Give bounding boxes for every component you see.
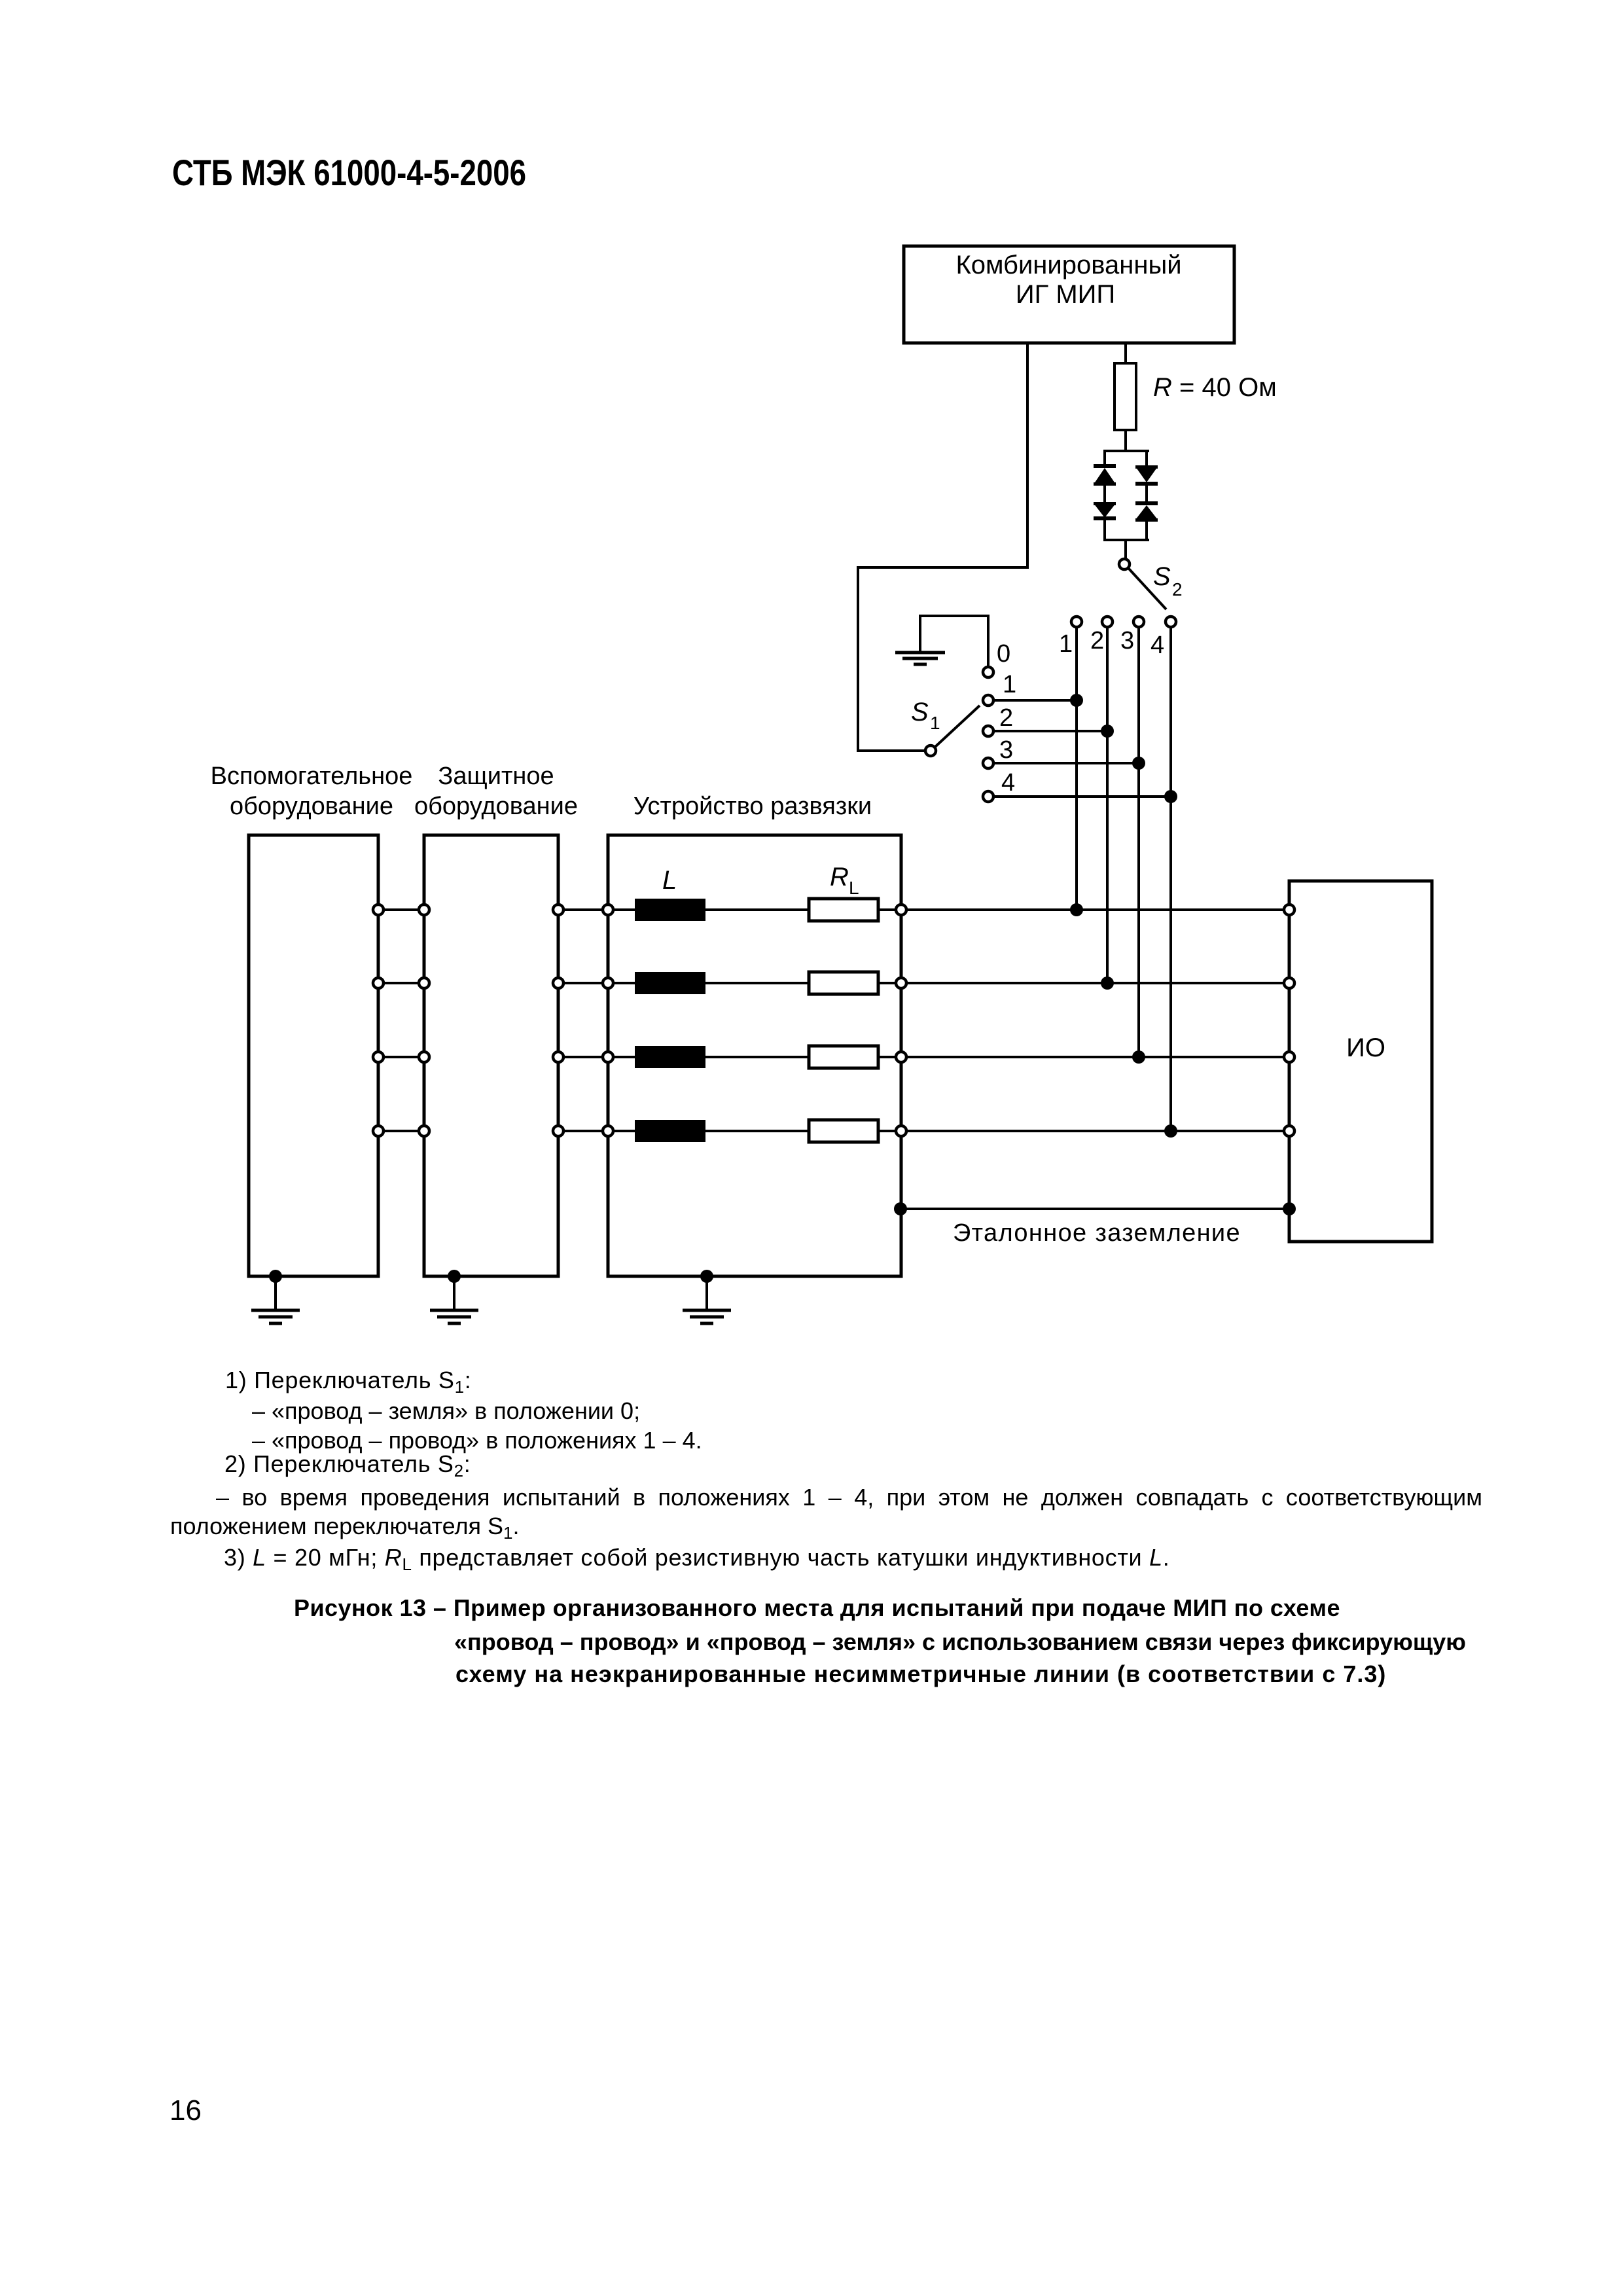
line 2: junction dot with vertical line 2 xyxy=(1101,977,1114,990)
line 2: wire to inductor xyxy=(613,982,635,984)
line 1: terminal circle on box3 left edge xyxy=(603,905,613,915)
line 4: terminal circle on box2 left edge xyxy=(419,1126,429,1136)
junction dot ground of box at x=694 xyxy=(448,1270,461,1283)
diode D1 (left top, cathode up) xyxy=(1094,464,1116,486)
line 3: terminal circle on EUT left edge xyxy=(1284,1052,1294,1062)
ground stem below box at x=694 xyxy=(453,1276,455,1309)
diode D2 (left bottom, cathode down) xyxy=(1094,502,1116,520)
line 3: wire box1-box2 xyxy=(383,1056,419,1058)
line 2: wire box1-box2 xyxy=(383,982,419,984)
line 2: wire box3 to EUT xyxy=(906,982,1284,984)
terminal circle line 1 top xyxy=(1071,617,1082,627)
line 2: terminal circle on box2 left edge xyxy=(419,978,429,988)
line 3: junction dot with vertical line 3 xyxy=(1132,1050,1145,1064)
resistor RL line 2 xyxy=(809,972,878,994)
line 3: terminal circle on box3 left edge xyxy=(603,1052,613,1062)
ground symbol below box at x=1080 xyxy=(683,1310,731,1323)
line 3: terminal circle on box2 right edge xyxy=(553,1052,563,1062)
terminal 4 of S1 xyxy=(983,791,993,802)
line 2: terminal circle on box3 left edge xyxy=(603,978,613,988)
note 1: switch S1 xyxy=(225,1369,471,1395)
ground stem below box at x=1080 xyxy=(705,1276,708,1309)
terminal 0 of S1 xyxy=(983,667,993,677)
vertical line from terminal 3 to line 3 xyxy=(1137,627,1140,1057)
figure caption line 1 xyxy=(294,1596,1340,1620)
line 3: terminal circle on box1 right edge xyxy=(373,1052,383,1062)
note 1a xyxy=(252,1399,640,1423)
inductor L line 3 xyxy=(635,1046,705,1068)
line 1: wire inductor to resistor RL xyxy=(705,908,808,911)
line 3: wire inductor to resistor RL xyxy=(705,1056,808,1058)
line 4: terminal circle on EUT left edge xyxy=(1284,1126,1294,1136)
terminal 3 of S1 xyxy=(983,758,993,768)
wire terminal4 to line4 xyxy=(993,795,1171,798)
figure caption line 3 xyxy=(455,1662,1386,1686)
line 1: wire to inductor xyxy=(613,908,635,911)
box 1: auxiliary equipment xyxy=(249,835,378,1276)
line 1: terminal circle on box1 right edge xyxy=(373,905,383,915)
wire terminal1 to line1 xyxy=(993,699,1077,702)
reference ground wire box3 to EUT xyxy=(901,1208,1289,1210)
line 1: terminal circle on box2 left edge xyxy=(419,905,429,915)
line 4: junction dot with vertical line 4 xyxy=(1164,1124,1177,1138)
resistor RL line 3 xyxy=(809,1046,878,1068)
line 2: wire inductor to resistor RL xyxy=(705,982,808,984)
line 4: terminal circle on box3 left edge xyxy=(603,1126,613,1136)
page number xyxy=(169,2096,202,2125)
line 1: wire box2-box3 xyxy=(563,908,603,911)
vertical line from terminal 2 to line 2 xyxy=(1106,627,1109,983)
inductor L line 2 xyxy=(635,972,705,994)
box EUT: ИО xyxy=(1289,881,1432,1242)
line 2: wire resistor to box3 right edge xyxy=(878,982,896,984)
switch S2 arm xyxy=(1129,569,1166,609)
line 1: terminal circle on box3 right edge xyxy=(896,905,906,915)
line 3: terminal circle on box2 left edge xyxy=(419,1052,429,1062)
terminal circle line 4 top xyxy=(1166,617,1176,627)
inductor L line 4 xyxy=(635,1120,705,1142)
svg-text:Эталонное заземление: Эталонное заземление xyxy=(953,1219,1241,1247)
resistor RL line 4 xyxy=(809,1120,878,1142)
line 1: junction dot with vertical line 1 xyxy=(1070,903,1083,916)
wire terminal3 to line3 xyxy=(993,762,1139,764)
vertical line from terminal 4 to line 4 xyxy=(1169,627,1172,1131)
line 4: terminal circle on box3 right edge xyxy=(896,1126,906,1136)
clamp network frame (bidirectional diode clipper) xyxy=(1103,450,1149,559)
line 2: wire box2-box3 xyxy=(563,982,603,984)
switch S2 pivot contact xyxy=(1119,559,1130,569)
ground symbol below box at x=694 xyxy=(430,1310,478,1323)
line 4: wire resistor to box3 right edge xyxy=(878,1130,896,1132)
header: document code xyxy=(172,154,526,191)
note 2: switch S2 xyxy=(224,1452,471,1479)
switch S1 common contact xyxy=(925,745,936,756)
diode D4 (right bottom, cathode up) xyxy=(1135,501,1158,522)
junction dot line1/terminal1 xyxy=(1070,694,1083,707)
line 2: terminal circle on EUT left edge xyxy=(1284,978,1294,988)
resistor R xyxy=(1115,363,1136,430)
line 3: wire to inductor xyxy=(613,1056,635,1058)
line 4: terminal circle on box1 right edge xyxy=(373,1126,383,1136)
ground symbol near S1 xyxy=(895,653,945,664)
terminal 1 of S1 xyxy=(983,695,993,706)
figure caption line 2 xyxy=(454,1630,1466,1654)
terminal 2 of S1 xyxy=(983,726,993,736)
junction dot reference ground at box3 xyxy=(894,1202,907,1215)
line 2: terminal circle on box2 right edge xyxy=(553,978,563,988)
junction dot line3/terminal3 xyxy=(1132,757,1145,770)
note 1b xyxy=(252,1429,702,1452)
vertical line from terminal 1 to line 1 xyxy=(1075,627,1078,910)
ground symbol below box at x=421 xyxy=(251,1310,300,1323)
line 1: terminal circle on box2 right edge xyxy=(553,905,563,915)
ground wire at S1 position 0 xyxy=(920,616,988,667)
wire terminal2 to line2 xyxy=(993,730,1107,732)
line 2: terminal circle on box1 right edge xyxy=(373,978,383,988)
box 2: protective equipment xyxy=(424,835,558,1276)
wire: generator right output to resistor R xyxy=(1124,343,1127,363)
line 3: wire resistor to box3 right edge xyxy=(878,1056,896,1058)
junction dot line2/terminal2 xyxy=(1101,725,1114,738)
line 3: wire box2-box3 xyxy=(563,1056,603,1058)
line 1: wire box1-box2 xyxy=(383,908,419,911)
inductor L line 1 xyxy=(635,899,705,921)
diode D3 (right top, cathode down) xyxy=(1135,465,1158,486)
line 4: wire box1-box2 xyxy=(383,1130,419,1132)
terminal circle line 3 top xyxy=(1133,617,1144,627)
line 4: wire box3 to EUT xyxy=(906,1130,1284,1132)
box 3: decoupling device xyxy=(608,835,901,1276)
switch S1 arm xyxy=(935,706,980,747)
junction dot ground of box at x=1080 xyxy=(700,1270,713,1283)
resistor RL line 1 xyxy=(809,899,878,921)
junction dot ground of box at x=421 xyxy=(269,1270,282,1283)
line 4: wire to inductor xyxy=(613,1130,635,1132)
generator box: Комбинированный ИГ МИП xyxy=(904,246,1234,343)
line 4: wire inductor to resistor RL xyxy=(705,1130,808,1132)
ground stem below box at x=421 xyxy=(274,1276,277,1309)
junction dot line4/terminal4 xyxy=(1164,790,1177,803)
line 1: wire box3 to EUT xyxy=(906,908,1284,911)
line 4: terminal circle on box2 right edge xyxy=(553,1126,563,1136)
line 3: terminal circle on box3 right edge xyxy=(896,1052,906,1062)
junction dot reference ground at EUT xyxy=(1283,1202,1296,1215)
note 2a justified line xyxy=(216,1486,1482,1509)
line 3: wire box3 to EUT xyxy=(906,1056,1284,1058)
wire: generator left output down-left to switch S1 common xyxy=(858,343,1027,751)
line 1: terminal circle on EUT left edge xyxy=(1284,905,1294,915)
wire: resistor to clamp network xyxy=(1124,430,1127,452)
note 2a continuation xyxy=(170,1515,519,1541)
terminal circle line 2 top xyxy=(1102,617,1113,627)
line 2: terminal circle on box3 right edge xyxy=(896,978,906,988)
line 1: wire resistor to box3 right edge xyxy=(878,908,896,911)
line 4: wire box2-box3 xyxy=(563,1130,603,1132)
note 3: L value xyxy=(224,1546,1170,1573)
